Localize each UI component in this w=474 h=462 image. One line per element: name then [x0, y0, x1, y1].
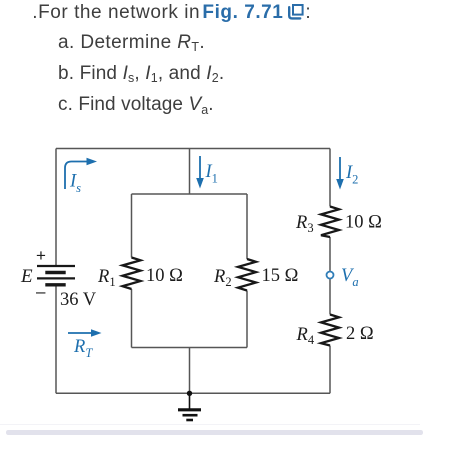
current arrow I1 — [199, 156, 201, 180]
svg-text:E: E — [20, 266, 33, 287]
svg-text:I2: I2 — [345, 163, 358, 187]
problem item c — [58, 94, 214, 116]
problem item b — [58, 63, 224, 85]
svg-text:Is: Is — [69, 172, 81, 196]
wire: node a to R4 — [329, 278, 331, 314]
svg-text:R2: R2 — [213, 267, 232, 289]
ground — [178, 393, 201, 420]
svg-text:36 V: 36 V — [60, 290, 97, 310]
wire: left conductor, battery - lead down to bottom — [55, 285, 57, 393]
resistor R1 — [123, 258, 141, 290]
wire: feed from top conductor into parallel bank — [189, 149, 191, 195]
divider hairline — [0, 424, 420, 425]
wire: R3 to node a — [329, 237, 331, 272]
svg-text:RT: RT — [73, 337, 93, 360]
svg-text:Va: Va — [341, 266, 359, 289]
current arrow I2 — [339, 157, 341, 181]
wire: bottom conductor — [56, 392, 330, 394]
svg-text:15 Ω: 15 Ω — [262, 266, 299, 286]
resistor R2 — [238, 259, 256, 291]
problem statement line 1 — [32, 2, 311, 24]
svg-text:+: + — [36, 246, 46, 265]
svg-text:R1: R1 — [97, 267, 116, 289]
svg-text:R4: R4 — [296, 325, 315, 347]
node a terminal circle — [327, 272, 334, 279]
svg-text:10 Ω: 10 Ω — [146, 266, 183, 286]
wire: R1 top lead — [131, 194, 133, 258]
wire: R1 bottom lead — [131, 289, 133, 348]
wire: R2 top lead — [246, 194, 248, 259]
current arrow Is — [65, 162, 88, 190]
wire: parallel bank top rail — [132, 193, 248, 195]
wire: parallel bank bottom rail — [132, 347, 248, 349]
resistor R3 — [321, 207, 339, 238]
junction: bottom node dot — [187, 391, 192, 396]
wire: top conductor from battery + to right branch — [56, 148, 330, 150]
scrollbar thumb bar — [6, 430, 423, 434]
wire: right branch top segment to R3 — [329, 149, 331, 207]
svg-text:2 Ω: 2 Ω — [346, 324, 374, 344]
svg-text:–: – — [36, 282, 46, 301]
wire: R2 bottom lead — [246, 291, 248, 348]
battery E — [37, 266, 75, 285]
resistor R4 — [321, 315, 339, 346]
wire: bank return to bottom conductor — [189, 348, 191, 394]
wire: R4 to bottom conductor — [329, 346, 331, 394]
problem item a — [58, 32, 205, 54]
wire: left conductor, battery + lead — [55, 149, 57, 267]
svg-text:10 Ω: 10 Ω — [345, 213, 382, 233]
svg-text:R3: R3 — [295, 213, 314, 235]
total resistance arrow RT — [68, 332, 93, 334]
svg-text:I1: I1 — [205, 162, 218, 186]
